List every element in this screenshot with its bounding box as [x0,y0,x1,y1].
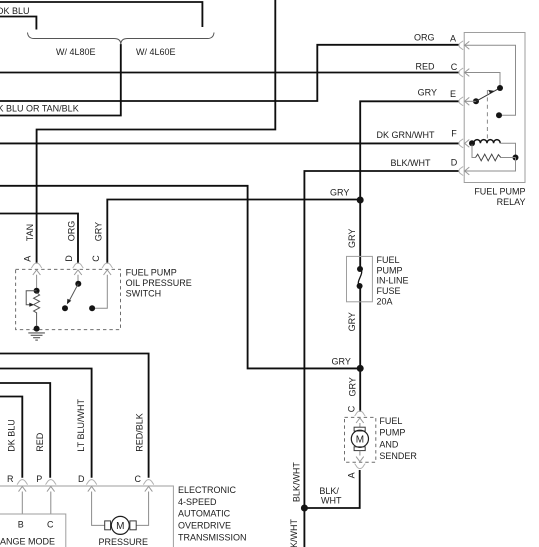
svg-text:BLK/WHT: BLK/WHT [291,462,301,503]
svg-text:ORG: ORG [414,33,435,43]
node junction GRY upper [357,197,364,204]
svg-text:E: E [450,89,456,99]
relay internal wire node to pin D [465,158,516,172]
switch ground node [34,326,40,332]
relay internal wire E stub [465,100,476,102]
relay caption [474,187,525,207]
svg-text:GRY: GRY [348,377,358,396]
trans pin R connector [17,480,28,492]
relay pin E contact [473,98,479,104]
svg-text:W/ 4L60E: W/ 4L60E [136,47,176,57]
svg-text:F: F [451,129,457,139]
svg-text:DK BLU: DK BLU [0,6,30,16]
fuse FUEL PUMP IN-LINE FUSE 20A [347,255,409,306]
svg-text:PRESSURE: PRESSURE [99,537,149,547]
trans pin P connector [45,480,56,492]
wire LT BLU/WHT to trans pin D [0,369,92,478]
wire top feed [0,2,202,27]
fuse bottom terminal [357,283,363,289]
switch pin D connector [73,263,84,275]
pin E connector [459,97,469,106]
svg-text:FUEL PUMP: FUEL PUMP [126,268,177,278]
svg-text:W/ 4L80E: W/ 4L80E [56,47,96,57]
switch pin C connector [102,263,113,275]
relay actuator dashed link [486,90,488,139]
svg-text:RED: RED [35,432,45,452]
svg-text:GRY: GRY [418,88,437,98]
svg-text:4-SPEED: 4-SPEED [178,497,217,507]
wire GRY main vertical / relay pin E [360,101,459,269]
ground symbol [28,333,45,340]
svg-text:AUTOMATIC: AUTOMATIC [178,509,231,519]
relay internal wire F to resistor [472,145,476,158]
wire RED to relay pin C [0,72,459,74]
trans internal wire R to B [21,492,23,515]
relay coil contact F [469,140,475,146]
svg-text:P: P [36,474,42,484]
range mode inner box [0,514,66,547]
pin C connector [459,68,469,77]
relay contact common [497,85,503,91]
svg-text:OVERDRIVE: OVERDRIVE [178,521,231,531]
svg-text:GRY: GRY [330,188,349,198]
switch internal wire D down [77,275,79,284]
fuse box [347,256,373,301]
svg-text:SWITCH: SWITCH [126,289,162,299]
svg-text:RANGE MODE: RANGE MODE [0,536,55,546]
svg-text:WHT: WHT [321,495,342,505]
wire RED to trans pin P [0,383,50,478]
svg-text:GRY: GRY [347,229,357,248]
svg-text:R: R [7,474,14,484]
trans internal wire D to solenoid [92,492,105,526]
svg-text:D: D [78,474,85,484]
wire DK GRN/WHT to relay pin F [0,142,459,144]
pump pin A connector [355,457,366,469]
switch arm D-C [67,284,78,305]
relay internal wire C to common [465,73,500,86]
brace W/4L80E-W/4L60E [28,33,215,45]
trans internal wire P to C [50,492,52,515]
relay box [464,33,525,183]
switch FUEL PUMP OIL PRESSURE SWITCH [16,221,192,340]
trans pin C connector [143,480,154,492]
switch sender node [34,288,40,294]
switch rheostat element [34,293,40,326]
svg-text:ORG: ORG [66,221,76,242]
svg-text:A: A [450,34,456,44]
wire ORG to switch pin D [0,214,78,264]
svg-text:D: D [451,158,458,168]
svg-text:TRANSMISSION: TRANSMISSION [178,533,247,543]
svg-text:RED: RED [415,62,435,72]
pin F connector [459,139,469,148]
wire BLK/WHT from relay pin D [304,171,459,547]
switch contact C [89,305,95,311]
svg-text:C: C [135,474,142,484]
pump internal wire C to motor [359,423,361,427]
wire GRY to switch pin C [107,200,360,264]
svg-text:AND: AND [379,439,399,449]
svg-text:C: C [91,255,101,262]
switch pin A connector [31,263,42,275]
node junction BLK/WHT [301,505,308,512]
relay contact NO [496,112,502,118]
relay switch arm [476,89,498,101]
svg-text:M: M [356,435,364,446]
wire GRY feed to junction B [0,186,360,369]
wire TAN to switch pin A [37,0,276,264]
svg-text:M: M [116,521,124,532]
svg-text:FUEL PUMP: FUEL PUMP [474,187,525,197]
svg-text:LT BLU/WHT: LT BLU/WHT [76,399,86,452]
svg-text:D: D [64,255,74,262]
trans box [0,486,173,547]
pump FUEL PUMP AND SENDER [345,405,418,478]
fuse top terminal [357,266,363,272]
svg-text:FUSE: FUSE [377,286,401,296]
wire RED/BLK to trans pin C [0,354,149,478]
svg-text:DK BLU OR TAN/BLK: DK BLU OR TAN/BLK [0,104,79,114]
pin D connector [459,166,469,175]
svg-text:GRY: GRY [93,222,103,241]
node junction GRY lower [357,365,364,372]
LABELS-TOP [0,6,176,114]
pin A connector [459,41,469,50]
switch dashed box [16,269,121,329]
switch internal wire C down [92,275,107,309]
switch caption [126,268,192,299]
wire BLK/WHT pump to junction C [304,470,359,508]
svg-text:RELAY: RELAY [497,197,526,207]
fuse caption [377,255,409,306]
svg-text:ELECTRONIC: ELECTRONIC [178,485,237,495]
relay wire color labels [377,33,438,169]
svg-text:BLK/WHT: BLK/WHT [390,158,431,168]
relay node coil/resistor [513,155,519,161]
switch internal wire A down [36,275,38,291]
wire DK BLU to trans pin R [0,397,22,478]
relay coil L1 [474,140,500,144]
pump internal wire motor to A [359,451,361,456]
svg-text:BLK/WHT: BLK/WHT [289,518,299,547]
relay resistor R1 [476,154,501,161]
transmission ELECTRONIC 4-SPEED AUTOMATIC OVERDRIVE TRANSMISSION [0,399,247,547]
svg-text:C: C [346,405,356,412]
svg-text:FUEL: FUEL [377,255,400,265]
svg-text:20A: 20A [377,296,393,306]
svg-text:GRY: GRY [332,357,351,367]
trans pin D connector [86,480,97,492]
switch contact D [75,281,81,287]
relay internal wire coil to node [500,143,515,157]
svg-text:TAN: TAN [25,224,35,241]
pump dashed box [345,417,376,462]
svg-text:SENDER: SENDER [379,451,417,461]
switch rheostat arrow [26,291,36,307]
wire ORG to relay pin A [0,45,459,101]
solenoid motor M2 [105,516,137,534]
switch contact arm end [62,305,68,311]
wire DK BLU OR TAN/BLK [0,44,121,116]
svg-text:GRY: GRY [347,312,357,331]
LABELS-BLKWHT [289,462,342,547]
trans pin letters [7,474,142,484]
LABELS-GRY-RUN [330,188,358,397]
svg-text:B: B [18,520,24,530]
svg-text:FUEL: FUEL [379,416,402,426]
svg-text:PUMP: PUMP [379,428,405,438]
pump motor M1 [351,427,368,450]
svg-text:OIL PRESSURE: OIL PRESSURE [126,278,192,288]
svg-text:IN-LINE: IN-LINE [377,276,409,286]
relay FUEL PUMP RELAY [377,33,526,207]
relay pin letters [450,34,458,168]
trans caption [178,485,247,543]
svg-text:C: C [451,62,458,72]
svg-text:DK GRN/WHT: DK GRN/WHT [377,130,435,140]
pump caption [379,416,417,461]
relay internal wire resistor to node [501,157,516,159]
svg-text:C: C [47,520,54,530]
trans internal wire C to solenoid [136,492,149,526]
fuse element [358,269,361,286]
wire DK BLU feed [0,17,36,30]
svg-text:DK BLU: DK BLU [7,419,17,452]
svg-text:PUMP: PUMP [377,265,403,275]
svg-text:RED/BLK: RED/BLK [134,413,144,452]
relay internal wire A to NO contact [465,45,516,115]
pump pin C connector [355,411,366,423]
svg-text:A: A [346,472,356,478]
svg-text:A: A [23,256,33,262]
